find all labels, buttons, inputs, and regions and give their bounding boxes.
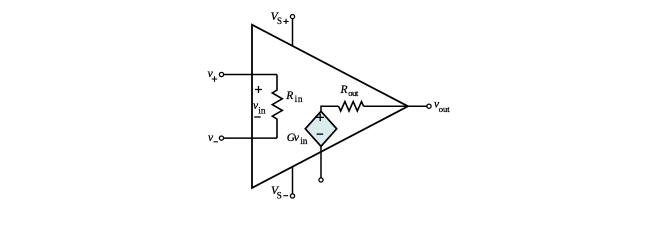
wire Rout to apex and out <box>364 105 427 107</box>
svg-text:out: out <box>439 104 451 114</box>
svg-text:out: out <box>348 88 359 98</box>
svg-text:R: R <box>340 84 348 96</box>
svg-text:v: v <box>294 132 300 144</box>
terminal VS+ <box>290 15 294 19</box>
svg-text:in: in <box>300 137 308 147</box>
resistor Rout (horizontal) <box>339 102 364 111</box>
op-amp U1 triangle body <box>252 25 408 188</box>
svg-text:S: S <box>277 16 282 26</box>
svg-text:in: in <box>295 95 304 105</box>
terminal below diamond <box>319 178 323 182</box>
terminal v+ <box>219 72 223 76</box>
label + inside diamond <box>317 114 324 121</box>
terminal VS- <box>290 194 294 198</box>
dependent source G*vin (diamond) <box>305 111 336 146</box>
label - inside diamond <box>317 133 324 135</box>
svg-text:in: in <box>258 106 266 116</box>
svg-text:R: R <box>285 90 293 102</box>
label - of vin <box>254 116 261 118</box>
svg-text:v: v <box>208 68 214 80</box>
wire v- to Rin bottom <box>224 137 277 139</box>
wire diamond bottom down <box>320 146 322 177</box>
label + of vin <box>255 86 262 93</box>
wire v+ to Rin top <box>224 74 277 76</box>
svg-text:v: v <box>208 132 214 144</box>
resistor Rin (vertical) <box>272 75 282 139</box>
wire diamond top to corner <box>321 106 339 111</box>
svg-text:S: S <box>277 191 282 201</box>
wire VS- stub <box>292 167 294 194</box>
terminal v- <box>219 136 223 140</box>
wire VS+ stub <box>292 19 294 46</box>
terminal vout <box>427 104 431 108</box>
